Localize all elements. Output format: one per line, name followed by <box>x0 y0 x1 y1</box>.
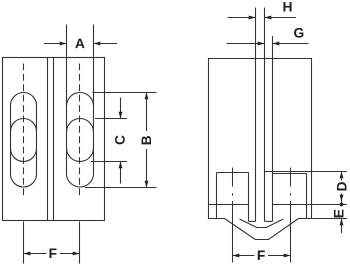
right view block edge line / G extension <box>272 36 274 221</box>
right view bottom edge extension for E <box>299 218 348 220</box>
inner V notch profile <box>240 219 284 228</box>
label G <box>294 28 303 38</box>
left slot inner bottom arc <box>11 149 37 162</box>
label A <box>75 39 84 48</box>
right block divider line <box>273 204 312 206</box>
right slot inner top arc <box>67 119 94 133</box>
dimension F left-view line right segment <box>60 253 80 255</box>
dimension A right extension line <box>93 25 95 107</box>
outer V notch profile <box>225 219 299 240</box>
dimension F right-view line left segment <box>233 255 255 257</box>
dimension B line lower segment <box>146 149 148 188</box>
right view jaw body outline <box>209 59 312 219</box>
right block centerline dot <box>290 193 292 196</box>
right slot centerline <box>79 64 81 199</box>
dimension B top extension line <box>93 92 157 94</box>
right foot bottom edge <box>265 220 273 222</box>
right block right edge <box>306 174 308 219</box>
label E <box>334 210 343 218</box>
left foot bottom edge <box>249 220 256 222</box>
dimension B bottom extension line <box>85 187 157 189</box>
dimension F right-view line right segment <box>268 255 291 257</box>
right view slot right line / H extension <box>264 8 266 222</box>
label H <box>283 2 291 11</box>
dimension F left-view right extension line <box>79 222 81 264</box>
right slot inner bottom arc <box>67 148 94 162</box>
right block centerline dash <box>290 168 292 187</box>
dimension C top arrow <box>120 98 122 119</box>
dimension H right arrow <box>265 17 297 19</box>
left block centerline dot <box>232 193 234 196</box>
dimension E bottom arrow <box>341 219 343 234</box>
left block left edge <box>216 173 218 219</box>
dimension A left extension line <box>66 25 68 107</box>
dimension C bottom extension line <box>91 161 127 163</box>
left block centerline lower / F extension <box>232 201 234 263</box>
dimension D line upper segment <box>341 172 343 181</box>
dimension D/E junction dot <box>340 203 344 207</box>
right slot outer outline <box>67 93 94 188</box>
right block centerline lower / F extension <box>290 201 292 263</box>
dimension D top extension line <box>312 171 348 173</box>
left view jaw body outline <box>3 58 105 221</box>
label F left view <box>50 249 57 258</box>
left slot inner top arc <box>11 119 37 132</box>
dimension C top extension line <box>95 118 127 120</box>
dimension G left arrow <box>227 43 265 45</box>
label D <box>337 182 346 190</box>
right view slot left line / H extension <box>255 8 257 222</box>
left slot centerline <box>23 64 25 199</box>
left block right edge <box>248 173 250 222</box>
label B <box>142 136 151 144</box>
dimension F left-view left extension line <box>23 222 25 264</box>
right block top edge <box>273 173 307 175</box>
left block divider line <box>209 204 249 206</box>
left slot outer outline <box>11 93 37 187</box>
dimension B line upper segment <box>146 93 148 132</box>
label C <box>115 135 125 144</box>
left view groove line 2 <box>53 58 55 221</box>
dimension A left arrow <box>44 43 67 45</box>
dimension H left arrow <box>228 17 256 19</box>
dimension C bottom arrow <box>120 162 122 184</box>
dimension D bottom extension line <box>312 204 348 206</box>
left view groove line 1 <box>47 58 49 221</box>
dimension A right arrow <box>94 43 118 45</box>
left block top edge <box>217 172 249 174</box>
dimension F left-view line left segment <box>24 253 47 255</box>
dimension G right arrow <box>273 43 309 45</box>
left block centerline dash <box>232 168 234 187</box>
label F right view <box>258 251 265 260</box>
right view step line <box>265 171 312 173</box>
dimension D line lower segment <box>341 194 343 205</box>
